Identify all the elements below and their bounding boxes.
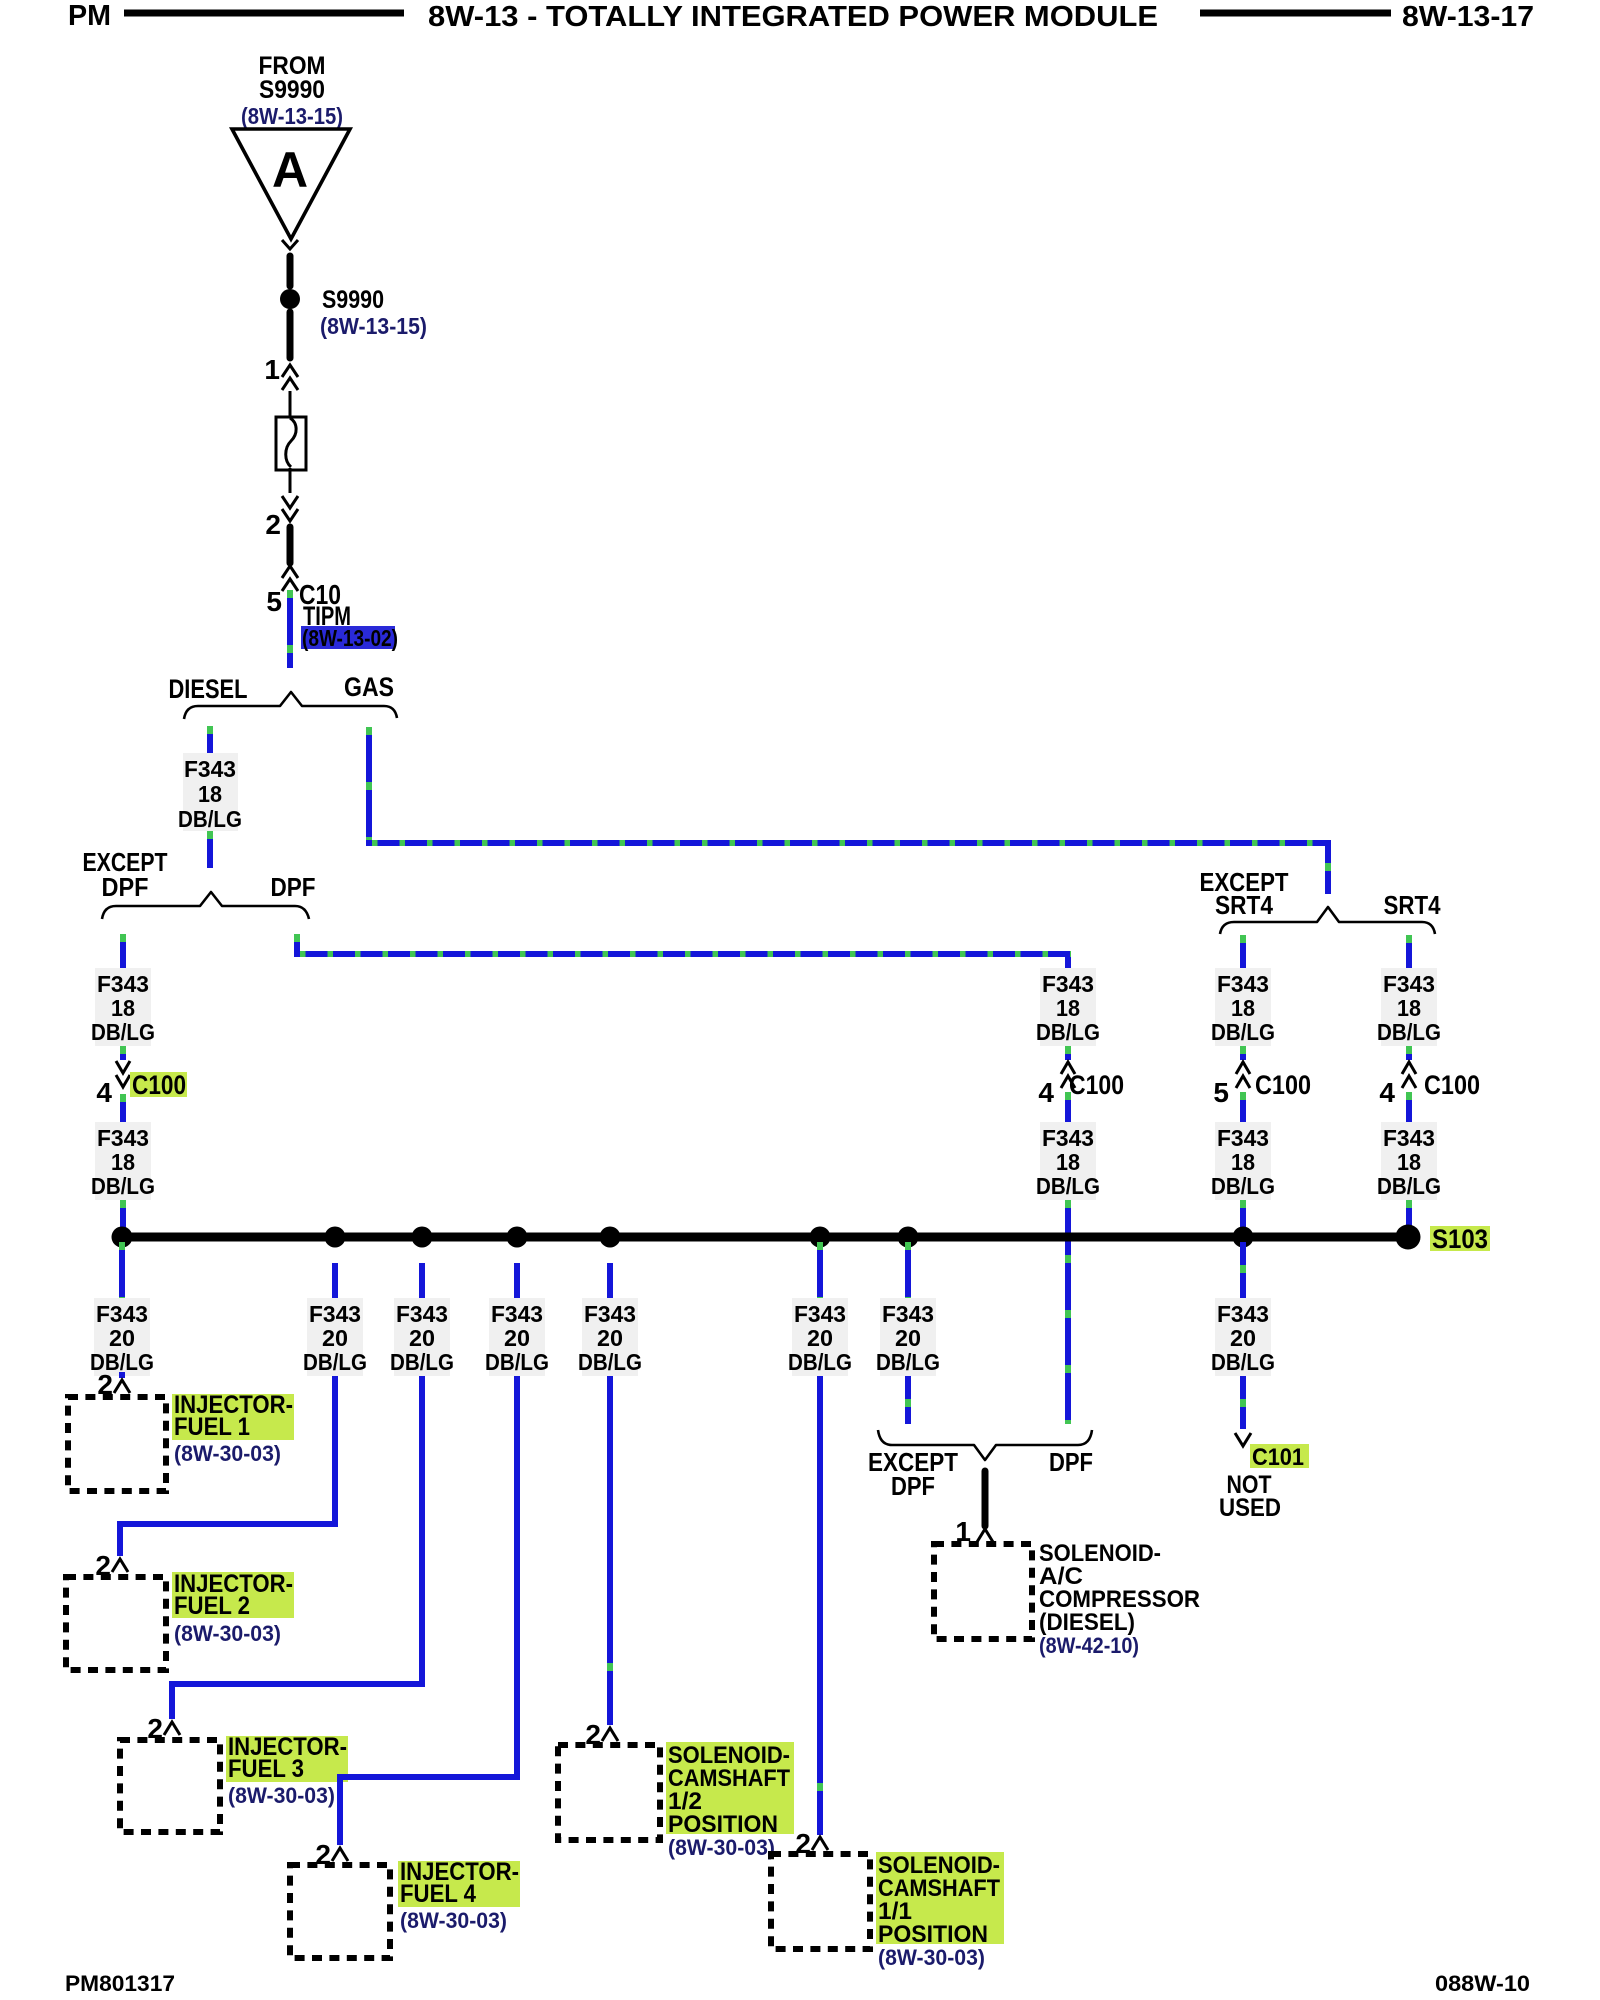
wire below diesel label xyxy=(207,831,213,868)
wire bus to rowC col 122 xyxy=(119,1242,125,1298)
svg-text:1: 1 xyxy=(264,354,280,385)
svg-text:C101: C101 xyxy=(1252,1444,1304,1471)
pin 1 connector chevrons (up) xyxy=(282,365,298,390)
svg-text:F343: F343 xyxy=(1217,1125,1269,1151)
connector C100 col1 chevrons (down) xyxy=(116,1061,130,1087)
bold stub below merge brace xyxy=(982,1471,989,1526)
GAS branch wire to SRT4 brace xyxy=(366,727,1331,894)
connector C101 label highlighted xyxy=(1250,1444,1309,1471)
brace EXCEPT DPF / DPF xyxy=(102,892,309,919)
svg-text:088W-10: 088W-10 xyxy=(1435,1971,1530,1996)
connector C100 col1068 chevrons (up) xyxy=(1061,1062,1075,1088)
label F343 20 DB/LG col335 xyxy=(303,1298,367,1376)
wire col1 C100 to rowB xyxy=(120,1094,126,1122)
wire stub between pin2 and pin5 xyxy=(287,527,294,563)
svg-text:18: 18 xyxy=(1231,1149,1255,1175)
svg-text:20: 20 xyxy=(109,1325,135,1351)
solenoid camshaft 1/2 labels xyxy=(666,1742,794,1860)
header PM title xyxy=(68,0,1534,33)
svg-text:(8W-42-10): (8W-42-10) xyxy=(1039,1633,1139,1658)
svg-text:POSITION: POSITION xyxy=(878,1921,988,1948)
connector C100 col1243 chevrons (up) xyxy=(1236,1062,1250,1088)
svg-text:DIESEL: DIESEL xyxy=(169,674,248,704)
svg-text:F343: F343 xyxy=(1217,971,1269,997)
svg-text:C100: C100 xyxy=(1424,1070,1480,1100)
label F343 20 DB/LG col517 xyxy=(485,1298,549,1376)
label F343 20 DB/LG col1243 xyxy=(1211,1298,1275,1376)
svg-text:20: 20 xyxy=(807,1325,833,1351)
svg-text:18: 18 xyxy=(1231,995,1255,1021)
junction dot 3 xyxy=(412,1227,433,1248)
footer xyxy=(65,1971,1530,1996)
svg-text:F343: F343 xyxy=(1042,1125,1094,1151)
svg-text:C100: C100 xyxy=(1255,1070,1311,1100)
svg-text:DB/LG: DB/LG xyxy=(578,1349,642,1375)
splice S103 label highlighted xyxy=(1430,1224,1490,1254)
label F343 18 DB/LG col 1243 row B xyxy=(1211,1122,1275,1200)
pin chevron camshaft 1/2 xyxy=(602,1728,618,1741)
svg-text:C100: C100 xyxy=(1069,1070,1124,1100)
svg-text:DB/LG: DB/LG xyxy=(876,1349,940,1375)
svg-text:20: 20 xyxy=(504,1325,530,1351)
svg-text:F343: F343 xyxy=(1383,1125,1435,1151)
svg-text:(DIESEL): (DIESEL) xyxy=(1039,1609,1135,1636)
brace DIESEL/GAS xyxy=(184,692,397,719)
svg-text:DB/LG: DB/LG xyxy=(91,1019,155,1045)
label F343 20 DB/LG col122 xyxy=(90,1298,154,1376)
label F343 18 DB/LG col 1068 row A xyxy=(1036,968,1100,1046)
svg-text:F343: F343 xyxy=(309,1301,361,1327)
EXCEPT DPF label (left) xyxy=(83,847,168,902)
injector fuel 4 labels xyxy=(398,1858,520,1933)
svg-text:F343: F343 xyxy=(491,1301,543,1327)
svg-text:DB/LG: DB/LG xyxy=(303,1349,367,1375)
svg-text:F343: F343 xyxy=(1217,1301,1269,1327)
solenoid camshaft 1/2 box xyxy=(558,1745,660,1840)
wire bus to rowC col 422 xyxy=(419,1263,425,1298)
svg-text:18: 18 xyxy=(198,781,222,807)
pin 2 connector chevrons (down) xyxy=(282,496,298,521)
wire col1243 rowA to C100 xyxy=(1240,1046,1246,1060)
wire col1409 C100 to rowB xyxy=(1406,1092,1412,1122)
pin 5 connector chevrons (up) xyxy=(282,566,298,591)
svg-text:5: 5 xyxy=(266,586,282,617)
pin chevron injector 3 xyxy=(164,1722,180,1735)
injector fuel 3 labels xyxy=(226,1733,348,1808)
junction dot 5 xyxy=(600,1227,621,1248)
svg-text:(8W-30-03): (8W-30-03) xyxy=(668,1835,775,1860)
svg-text:FUEL 2: FUEL 2 xyxy=(174,1592,250,1620)
splice S9990 label xyxy=(320,286,427,339)
wire bus to rowC col 335 xyxy=(332,1263,338,1298)
svg-text:DB/LG: DB/LG xyxy=(1377,1173,1441,1199)
svg-text:FUEL 4: FUEL 4 xyxy=(400,1880,476,1908)
svg-text:20: 20 xyxy=(322,1325,348,1351)
svg-text:4: 4 xyxy=(1379,1077,1395,1108)
pin chevron camshaft 1/1 xyxy=(812,1837,828,1850)
wire bus to rowC col 610 xyxy=(607,1263,613,1298)
svg-text:FUEL 1: FUEL 1 xyxy=(174,1413,250,1441)
svg-text:DB/LG: DB/LG xyxy=(1211,1019,1275,1045)
svg-text:5: 5 xyxy=(1213,1077,1229,1108)
splice bus S103 xyxy=(122,1233,1408,1242)
fuse box xyxy=(276,417,306,470)
svg-text:S9990: S9990 xyxy=(322,286,384,314)
svg-text:18: 18 xyxy=(1056,995,1080,1021)
injector fuel 1 box xyxy=(68,1397,166,1491)
wire col1409 rowA to C100 xyxy=(1406,1046,1412,1060)
EXCEPT DPF label (merge) xyxy=(868,1447,958,1501)
svg-text:PM: PM xyxy=(68,0,111,32)
svg-text:DB/LG: DB/LG xyxy=(390,1349,454,1375)
svg-text:18: 18 xyxy=(1397,995,1421,1021)
wire col1 rowB to bus xyxy=(120,1200,126,1233)
svg-text:(8W-30-03): (8W-30-03) xyxy=(174,1441,281,1466)
arrow below triangle xyxy=(282,240,298,249)
EXCEPT SRT4 label xyxy=(1200,867,1289,920)
wire bus to rowC col 820 xyxy=(817,1242,823,1298)
svg-text:2: 2 xyxy=(265,509,281,540)
svg-text:F343: F343 xyxy=(1383,971,1435,997)
fuse element curve xyxy=(286,418,296,467)
wire col1068 C100 to rowB xyxy=(1065,1092,1071,1122)
connector C101 chevron (down) xyxy=(1235,1433,1251,1446)
wire col1068 rowB through bus down to merge brace xyxy=(1065,1200,1071,1424)
wire col517 to injector 4 xyxy=(340,1376,517,1845)
wire bus to rowC col 1243 xyxy=(1240,1242,1246,1298)
svg-text:DB/LG: DB/LG xyxy=(1036,1019,1100,1045)
svg-text:POSITION: POSITION xyxy=(668,1811,778,1838)
svg-text:F343: F343 xyxy=(584,1301,636,1327)
svg-text:4: 4 xyxy=(1038,1077,1054,1108)
label F343 20 DB/LG col820 xyxy=(788,1298,852,1376)
svg-text:(8W-30-03): (8W-30-03) xyxy=(878,1945,985,1970)
svg-text:F343: F343 xyxy=(396,1301,448,1327)
wire col1 rowA to C100 xyxy=(120,1046,126,1060)
solenoid a/c compressor labels xyxy=(1039,1540,1200,1658)
wire below fuse xyxy=(289,468,292,493)
pin chevron injector 2 xyxy=(112,1559,128,1572)
svg-text:DPF: DPF xyxy=(891,1471,935,1501)
svg-text:DB/LG: DB/LG xyxy=(1377,1019,1441,1045)
svg-text:DB/LG: DB/LG xyxy=(788,1349,852,1375)
svg-text:(8W-30-03): (8W-30-03) xyxy=(400,1908,507,1933)
NOT USED label xyxy=(1219,1471,1281,1522)
label F343 18 DB/LG col 1068 row B xyxy=(1036,1122,1100,1200)
svg-text:DPF: DPF xyxy=(1049,1447,1093,1477)
wire col1068 rowA to C100 xyxy=(1065,1046,1071,1060)
svg-text:F343: F343 xyxy=(97,1125,149,1151)
svg-text:20: 20 xyxy=(597,1325,623,1351)
svg-text:DPF: DPF xyxy=(271,872,316,902)
pin chevron injector 4 xyxy=(332,1848,348,1861)
svg-text:20: 20 xyxy=(1230,1325,1256,1351)
wire col335 to injector 2 xyxy=(120,1376,335,1556)
junction dot 2 xyxy=(325,1227,346,1248)
wire into fuse xyxy=(289,391,292,417)
svg-text:FUEL 3: FUEL 3 xyxy=(228,1755,304,1783)
wire col1243 rowC to C101 xyxy=(1240,1376,1246,1429)
label F343 20 DB/LG col422 xyxy=(390,1298,454,1376)
wire stub below splice xyxy=(287,312,294,358)
injector fuel 4 box xyxy=(290,1865,390,1958)
svg-text:F343: F343 xyxy=(1042,971,1094,997)
connector C100 col1 label highlighted xyxy=(130,1070,187,1100)
wire stub above splice xyxy=(287,256,294,286)
wire except-dpf branch xyxy=(120,934,126,968)
injector fuel 2 labels xyxy=(172,1570,294,1646)
solenoid a/c compressor box xyxy=(934,1544,1032,1639)
svg-text:F343: F343 xyxy=(96,1301,148,1327)
wire bus to rowC col 517 xyxy=(514,1263,520,1298)
svg-text:(8W-13-15): (8W-13-15) xyxy=(241,103,343,129)
junction dot 1 xyxy=(112,1227,133,1248)
wire DPF branch down and right to column 1068 xyxy=(294,934,1071,968)
injector fuel 3 box xyxy=(120,1740,220,1832)
label F343 20 DB/LG col908 xyxy=(876,1298,940,1376)
off-page connector A triangle xyxy=(232,129,350,239)
wire stub injector 1 xyxy=(119,1372,125,1378)
svg-text:GAS: GAS xyxy=(344,672,394,702)
svg-text:DPF: DPF xyxy=(102,872,149,902)
svg-text:20: 20 xyxy=(409,1325,435,1351)
svg-text:8W-13-17: 8W-13-17 xyxy=(1402,1,1534,33)
svg-text:SRT4: SRT4 xyxy=(1384,890,1441,920)
pin chevron a/c solenoid xyxy=(977,1529,993,1542)
wire col422 to injector 3 xyxy=(172,1376,422,1719)
wire from C10 down to diesel/gas brace xyxy=(287,590,293,668)
wire col908 rowC to merge brace xyxy=(905,1376,911,1424)
svg-text:4: 4 xyxy=(96,1077,112,1108)
svg-text:18: 18 xyxy=(1056,1149,1080,1175)
svg-text:F343: F343 xyxy=(882,1301,934,1327)
injector fuel 1 labels xyxy=(172,1391,294,1466)
wire DIESEL branch upper xyxy=(207,726,213,753)
label F343 18 DB/LG col 1409 row A xyxy=(1377,968,1441,1046)
svg-text:DB/LG: DB/LG xyxy=(485,1349,549,1375)
svg-text:C100: C100 xyxy=(132,1070,186,1100)
junction dot 7 xyxy=(898,1227,919,1248)
svg-text:8W-13 - TOTALLY INTEGRATED POW: 8W-13 - TOTALLY INTEGRATED POWER MODULE xyxy=(428,1,1158,33)
solenoid camshaft 1/1 labels xyxy=(876,1852,1004,1970)
svg-text:(8W-13-15): (8W-13-15) xyxy=(320,313,427,339)
junction dot 8 xyxy=(1233,1227,1254,1248)
svg-text:20: 20 xyxy=(895,1325,921,1351)
brace EXCEPT SRT4 / SRT4 xyxy=(1220,907,1435,934)
solenoid camshaft 1/1 box xyxy=(771,1854,870,1949)
wire col1243 C100 to rowB xyxy=(1240,1092,1246,1122)
svg-text:DB/LG: DB/LG xyxy=(1211,1349,1275,1375)
svg-text:F343: F343 xyxy=(184,756,236,782)
svg-text:(8W-30-03): (8W-30-03) xyxy=(174,1621,281,1646)
label F343 18 DB/LG col 1409 row B xyxy=(1377,1122,1441,1200)
wire srt4 branch xyxy=(1406,935,1412,968)
off-page connector A label FROM S9990 (8W-13-15) xyxy=(241,52,343,129)
wire except-srt4 branch xyxy=(1240,935,1246,968)
svg-text:DB/LG: DB/LG xyxy=(1211,1173,1275,1199)
merge brace except dpf / dpf xyxy=(878,1430,1092,1460)
splice S9990 dot xyxy=(280,289,300,309)
junction dot 9 end xyxy=(1396,1225,1421,1250)
svg-text:18: 18 xyxy=(1397,1149,1421,1175)
svg-text:(8W-30-03): (8W-30-03) xyxy=(228,1783,335,1808)
svg-text:F343: F343 xyxy=(794,1301,846,1327)
TIPM reference highlighted (8W-13-02) xyxy=(301,625,398,651)
svg-text:18: 18 xyxy=(111,995,135,1021)
junction dot 4 xyxy=(507,1227,528,1248)
label F343 18 DB/LG (diesel) xyxy=(178,753,242,832)
wire col820 to camshaft 1/1 solenoid xyxy=(817,1376,823,1835)
svg-text:F343: F343 xyxy=(97,971,149,997)
svg-text:USED: USED xyxy=(1219,1494,1281,1522)
svg-text:SRT4: SRT4 xyxy=(1215,890,1273,920)
wire bus to rowC col 908 xyxy=(905,1242,911,1298)
svg-text:PM801317: PM801317 xyxy=(65,1971,175,1996)
svg-text:DB/LG: DB/LG xyxy=(91,1173,155,1199)
label F343 18 DB/LG col1 row A xyxy=(91,968,155,1046)
wire col1409 rowB to bus xyxy=(1406,1200,1412,1233)
svg-text:DB/LG: DB/LG xyxy=(1036,1173,1100,1199)
svg-text:S103: S103 xyxy=(1432,1224,1488,1254)
label F343 20 DB/LG col610 xyxy=(578,1298,642,1376)
junction dot 6 xyxy=(810,1227,831,1248)
svg-text:18: 18 xyxy=(111,1149,135,1175)
connector C100 col1409 chevrons (up) xyxy=(1402,1062,1416,1088)
label F343 18 DB/LG col 1243 row A xyxy=(1211,968,1275,1046)
wire col610 to camshaft 1/2 solenoid xyxy=(607,1376,613,1725)
injector fuel 2 box xyxy=(66,1577,166,1670)
svg-text:DB/LG: DB/LG xyxy=(178,806,242,832)
svg-text:A: A xyxy=(272,142,308,198)
svg-text:S9990: S9990 xyxy=(259,76,325,104)
label F343 18 DB/LG col1 row B xyxy=(91,1122,155,1200)
pin chevron injector 1 xyxy=(114,1380,130,1393)
wire col1243 rowB to bus xyxy=(1240,1200,1246,1233)
svg-text:(8W-13-02): (8W-13-02) xyxy=(302,625,398,651)
